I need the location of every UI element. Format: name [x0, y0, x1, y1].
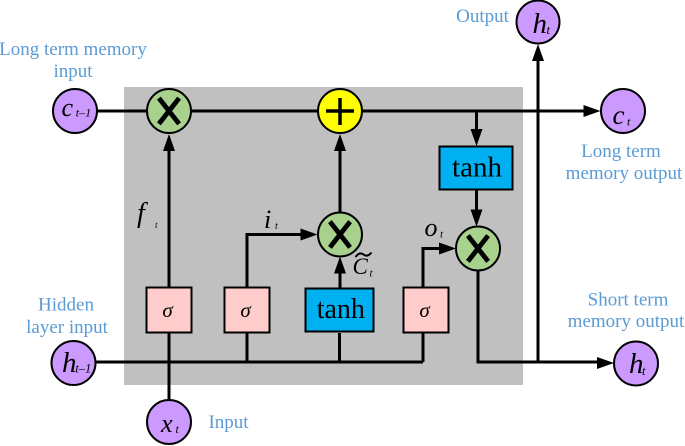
svg-text:Long term: Long term	[581, 141, 661, 162]
svg-text:o: o	[425, 213, 438, 242]
svg-text:tanh: tanh	[317, 294, 365, 325]
svg-text:σ: σ	[240, 298, 252, 322]
svg-text:Long term memory: Long term memory	[0, 39, 147, 60]
svg-text:t–1: t–1	[76, 105, 91, 119]
svg-text:tanh: tanh	[452, 152, 502, 184]
svg-text:memory output: memory output	[566, 163, 683, 184]
svg-text:Short term: Short term	[588, 290, 669, 311]
svg-text:c: c	[62, 93, 74, 122]
svg-text:t: t	[642, 364, 646, 378]
svg-text:layer input: layer input	[26, 317, 109, 338]
svg-text:input: input	[53, 61, 93, 82]
svg-text:Output: Output	[456, 6, 510, 27]
svg-text:memory output: memory output	[568, 311, 685, 332]
svg-text:h: h	[533, 8, 548, 40]
svg-text:C: C	[353, 254, 369, 279]
svg-text:x: x	[160, 409, 173, 438]
svg-text:Hidden: Hidden	[38, 295, 94, 316]
svg-text:t–1: t–1	[75, 362, 91, 376]
svg-text:t: t	[275, 221, 278, 232]
svg-text:c: c	[613, 100, 625, 130]
svg-text:σ: σ	[419, 298, 431, 322]
svg-text:i: i	[264, 205, 271, 234]
svg-text:σ: σ	[162, 298, 174, 322]
svg-text:Input: Input	[208, 412, 249, 433]
svg-text:t: t	[547, 23, 551, 37]
